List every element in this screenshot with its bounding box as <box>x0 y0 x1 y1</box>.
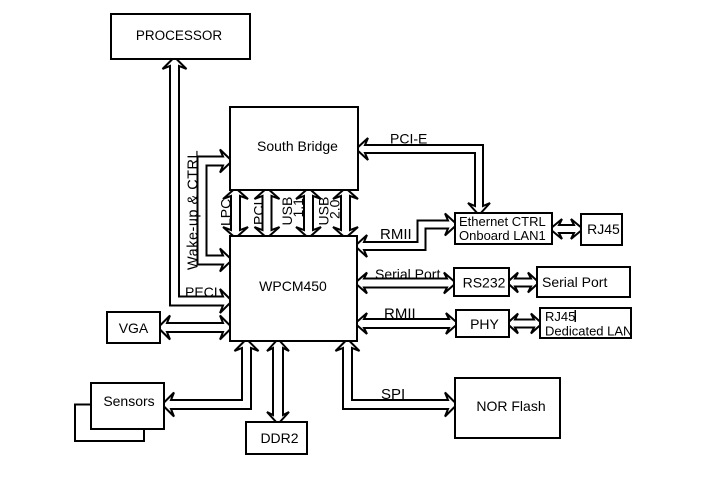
wire PHY to RJ45 Dedicated LAN <box>507 314 542 334</box>
svg-text:PECI: PECI <box>185 284 218 300</box>
svg-text:PCI: PCI <box>251 202 267 225</box>
wire Sensors to WPCM450 (L-shape) <box>162 339 259 417</box>
wire VGA to WPCM450 <box>158 316 232 340</box>
box RS232 <box>454 268 509 296</box>
svg-text:NOR Flash: NOR Flash <box>476 398 545 414</box>
box Serial Port <box>537 267 630 297</box>
svg-text:SPI: SPI <box>381 386 405 403</box>
svg-text:Serial Port: Serial Port <box>375 266 440 282</box>
box WPCM450 <box>230 236 357 341</box>
box DDR2 <box>246 422 307 454</box>
svg-text:Onboard LAN1: Onboard LAN1 <box>459 228 546 243</box>
svg-text:RMII: RMII <box>384 306 416 323</box>
box Ethernet CTRL / Onboard LAN1 <box>455 213 552 244</box>
wire PCI-E: South Bridge to Ethernet CTRL (L-shape) <box>356 138 490 215</box>
svg-text:RJ45: RJ45 <box>545 309 575 324</box>
wire RS232 to Serial Port box <box>507 273 539 293</box>
box PHY <box>456 310 509 337</box>
svg-text:VGA: VGA <box>119 320 149 336</box>
svg-text:RMII: RMII <box>380 226 412 243</box>
svg-text:Sensors: Sensors <box>103 393 154 409</box>
svg-text:Dedicated LAN: Dedicated LAN <box>545 324 632 339</box>
box RJ45 <box>581 214 622 245</box>
wire RMII: WPCM450 to PHY <box>355 313 458 334</box>
svg-text:2.0: 2.0 <box>327 199 343 219</box>
wire RMII: WPCM450 to Ethernet CTRL (Z-shape) <box>355 214 457 258</box>
wire DDR2 to WPCM450 (vertical double arrow) <box>267 339 289 424</box>
svg-text:PHY: PHY <box>470 316 499 332</box>
wire Serial Port: WPCM450 to RS232 <box>355 273 456 294</box>
text cursor after RJ45 <box>575 310 577 322</box>
wire SPI: WPCM450 to NOR Flash (L-shape) <box>336 339 458 417</box>
box RJ45 Dedicated LAN <box>540 308 631 338</box>
svg-text:RJ45: RJ45 <box>587 221 620 237</box>
box Sensors <box>91 383 164 429</box>
wire PECI: PROCESSOR to WPCM450 (L-shape, arrows both ends) <box>163 57 233 313</box>
wire USB 2.0: South Bridge to WPCM450 (vertical double arrow) <box>333 188 358 238</box>
svg-text:RS232: RS232 <box>463 275 506 291</box>
svg-text:1.1: 1.1 <box>290 198 306 218</box>
svg-text:Wake-up & CTRL: Wake-up & CTRL <box>186 150 202 270</box>
box VGA <box>107 312 160 343</box>
svg-text:Serial Port: Serial Port <box>542 274 607 290</box>
svg-text:LPC: LPC <box>218 199 234 226</box>
svg-text:South Bridge: South Bridge <box>257 138 338 154</box>
svg-text:DDR2: DDR2 <box>260 430 298 446</box>
box NOR Flash <box>455 378 560 438</box>
wire LPC: South Bridge to WPCM450 (vertical double arrow) <box>223 188 248 238</box>
wire USB 1.1: South Bridge to WPCM450 (vertical double arrow) <box>296 188 321 238</box>
box South Bridge <box>230 107 358 190</box>
wire Wake-up & CTRL bracket: South Bridge to WPCM450 <box>198 150 233 272</box>
wire PCI: South Bridge to WPCM450 (vertical double arrow) <box>255 188 280 238</box>
svg-text:PROCESSOR: PROCESSOR <box>136 28 223 43</box>
box Sensors shadow <box>75 405 144 442</box>
wire Ethernet CTRL to RJ45 <box>550 219 583 239</box>
svg-text:WPCM450: WPCM450 <box>259 278 327 294</box>
svg-text:Ethernet CTRL: Ethernet CTRL <box>459 214 546 229</box>
box PROCESSOR <box>111 14 250 59</box>
svg-text:PCI-E: PCI-E <box>390 131 427 147</box>
